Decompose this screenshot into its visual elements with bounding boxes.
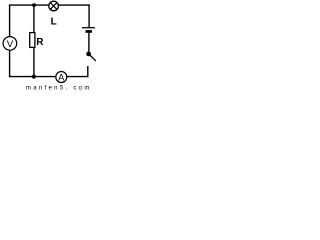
node junction dot top <box>32 3 36 7</box>
wire middle branch vertical <box>33 5 35 77</box>
ammeter A <box>56 72 67 83</box>
battery cell: short thick negative plate <box>86 30 92 33</box>
svg-text:V: V <box>7 39 14 50</box>
node junction dot bottom <box>32 75 36 79</box>
wire switch lower terminal vertical <box>87 66 89 77</box>
switch S terminal dot <box>86 52 91 57</box>
wire bottom horizontal <box>9 76 89 78</box>
wire right vertical upper <box>88 4 90 27</box>
battery cell: long positive plate <box>82 27 95 29</box>
wire top horizontal <box>9 4 90 6</box>
svg-text:manfen5. com: manfen5. com <box>26 85 92 91</box>
watermark <box>26 85 92 91</box>
voltmeter V <box>3 37 17 51</box>
svg-text:L: L <box>51 17 57 28</box>
wire left vertical <box>9 5 11 77</box>
wire battery to switch <box>88 33 90 54</box>
svg-text:R: R <box>36 37 44 48</box>
switch S lever (open) <box>89 54 96 61</box>
lamp L symbol <box>49 1 59 11</box>
svg-text:A: A <box>58 72 64 82</box>
resistor R body <box>30 33 35 48</box>
